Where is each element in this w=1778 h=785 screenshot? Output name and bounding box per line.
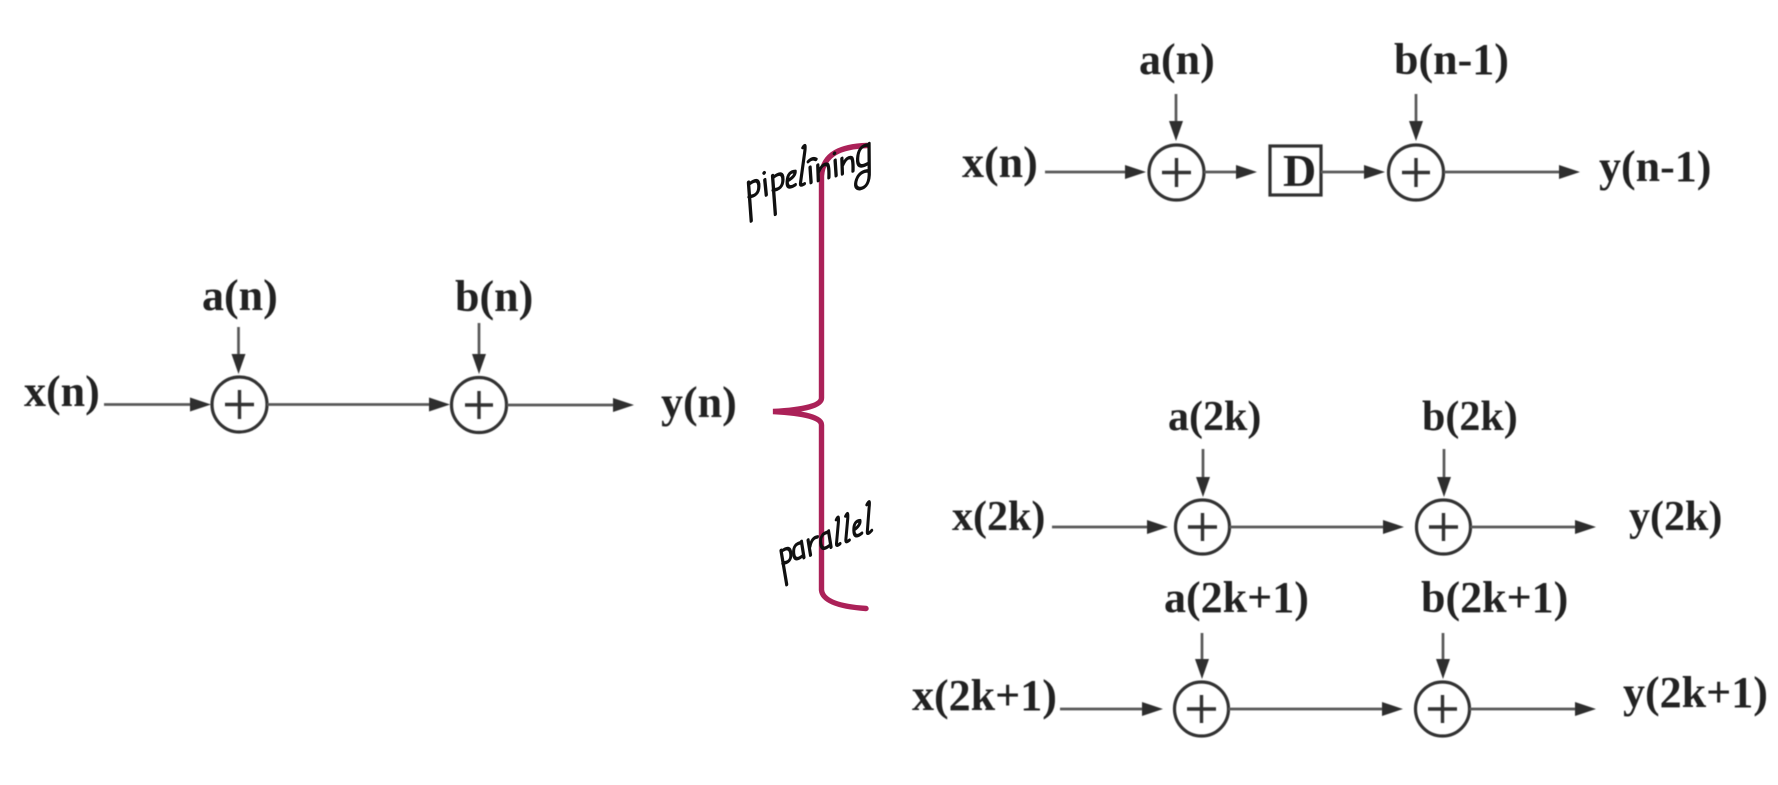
svg-text:x(n): x(n): [962, 138, 1038, 187]
arrowhead into S8: [1382, 702, 1403, 716]
plus in S3: [1162, 158, 1191, 187]
wire S2 to y(n): [507, 404, 614, 407]
wire S3 to delay D: [1204, 171, 1239, 174]
wire x(2k) to adder S5: [1052, 526, 1148, 529]
wire x(2k+1) to adder S7: [1060, 708, 1145, 711]
wire x(n) to adder S3: [1045, 171, 1128, 174]
wire a(2k) into S5: [1202, 449, 1205, 480]
wire S4 to y(n-1): [1444, 171, 1560, 174]
adder S2: [452, 378, 507, 433]
svg-text:x(n): x(n): [24, 367, 100, 416]
adder S6: [1417, 500, 1471, 554]
adder S1: [212, 377, 267, 432]
svg-text:y(n): y(n): [661, 378, 737, 427]
wire a(n) into S3: [1175, 94, 1178, 124]
arrowhead into S1: [190, 398, 211, 412]
plus in S8: [1428, 695, 1457, 723]
adder S7: [1175, 682, 1229, 736]
arrowhead into S4: [1364, 165, 1385, 179]
arrowhead b(2k+1) into S8: [1436, 659, 1450, 679]
svg-text:a(2k+1): a(2k+1): [1164, 573, 1309, 622]
svg-text:b(n-1): b(n-1): [1394, 35, 1509, 84]
brace: [773, 146, 867, 609]
arrowhead into S2: [429, 398, 450, 412]
arrowhead a(2k) into S5: [1196, 477, 1210, 497]
wire S7 to S8: [1229, 708, 1386, 711]
handwriting parallel: [780, 502, 873, 586]
svg-text:b(n): b(n): [455, 272, 533, 321]
plus in S7: [1187, 695, 1216, 723]
arrowhead to y(2k): [1575, 520, 1596, 534]
arrowhead a(n) into S1: [232, 354, 246, 374]
wire S6 to y(2k): [1471, 526, 1577, 529]
wire b(n) into S2: [478, 323, 481, 358]
arrowhead to y(n): [613, 398, 634, 412]
arrowhead into S3: [1125, 165, 1146, 179]
wire S1 to S2: [267, 403, 432, 406]
svg-text:b(2k): b(2k): [1422, 394, 1518, 440]
svg-text:y(2k+1): y(2k+1): [1623, 668, 1768, 717]
svg-text:a(2k): a(2k): [1168, 394, 1261, 440]
adder S5: [1176, 500, 1230, 554]
arrowhead into D: [1236, 165, 1257, 179]
wire D to adder S4: [1321, 171, 1367, 174]
plus in S2: [465, 391, 493, 419]
adder S4: [1389, 145, 1444, 200]
svg-text:a(n): a(n): [202, 271, 278, 320]
wire x(n) to adder S1: [104, 403, 196, 406]
arrowhead into S5: [1147, 520, 1168, 534]
svg-text:a(n): a(n): [1139, 35, 1215, 84]
delay D box: [1270, 146, 1321, 195]
arrowhead into S7: [1142, 702, 1163, 716]
plus in S4: [1402, 158, 1430, 187]
svg-text:b(2k+1): b(2k+1): [1421, 573, 1568, 622]
svg-text:x(2k+1): x(2k+1): [912, 671, 1057, 720]
wire S5 to S6: [1230, 526, 1387, 529]
arrowhead a(n) into S3: [1169, 121, 1183, 141]
plus in S5: [1188, 513, 1217, 541]
arrowhead to y(n-1): [1559, 165, 1580, 179]
svg-text:x(2k): x(2k): [952, 494, 1045, 540]
adder S3: [1149, 145, 1204, 200]
arrowhead into S6: [1383, 520, 1404, 534]
arrowhead a(2k+1) into S7: [1195, 659, 1209, 679]
handwriting pipelining: [747, 127, 870, 222]
wire a(2k+1) into S7: [1201, 633, 1204, 662]
svg-text:y(2k): y(2k): [1629, 494, 1722, 540]
wire b(2k+1) into S8: [1442, 633, 1445, 662]
arrowhead b(n) into S2: [472, 354, 486, 374]
wire a(n) into S1: [237, 327, 240, 358]
arrowhead to y(2k+1): [1575, 702, 1596, 716]
arrowhead b(n-1) into S4: [1409, 121, 1423, 141]
plus in S6: [1429, 513, 1458, 541]
adder S8: [1416, 682, 1470, 736]
svg-text:y(n-1): y(n-1): [1599, 142, 1711, 191]
wire b(n-1) into S4: [1415, 94, 1418, 124]
svg-text:D: D: [1283, 145, 1316, 196]
plus in S1: [225, 390, 254, 419]
arrowhead b(2k) into S6: [1437, 477, 1451, 497]
wire b(2k) into S6: [1443, 449, 1446, 480]
wire S8 to y(2k+1): [1470, 708, 1577, 711]
